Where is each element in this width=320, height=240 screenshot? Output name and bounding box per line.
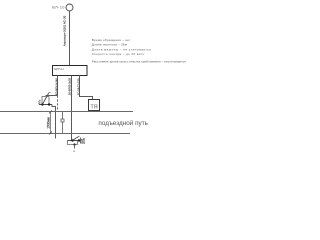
svg-text:Скорость поезда – до 20 км/ч: Скорость поезда – до 20 км/ч bbox=[92, 52, 144, 56]
svg-text:ЦРП-Н: ЦРП-Н bbox=[54, 67, 64, 71]
svg-text:2б-ВЛ02-3х35: 2б-ВЛ02-3х35 bbox=[68, 78, 72, 96]
svg-text:РЛс: РЛс bbox=[39, 99, 42, 104]
svg-text:1500мм: 1500мм bbox=[46, 117, 50, 128]
svg-text:Длина перегона – 36м: Длина перегона – 36м bbox=[92, 43, 127, 47]
svg-text:Время обращения – нет: Время обращения – нет bbox=[92, 38, 131, 42]
svg-text:КЛ-663-2х240: КЛ-663-2х240 bbox=[54, 78, 58, 95]
svg-text:Длина машины – не учитываетс: Длина машины – не учитывается bbox=[92, 47, 151, 51]
svg-text:Расстояние длина узкого участк: Расстояние длина узкого участка приближе… bbox=[92, 59, 186, 63]
svg-text:2С-19-71-150: 2С-19-71-150 bbox=[76, 78, 80, 95]
svg-text:АС35: АС35 bbox=[83, 137, 86, 143]
svg-text:подъездной путь: подъездной путь bbox=[98, 119, 148, 127]
svg-text:ТЯ: ТЯ bbox=[90, 105, 97, 111]
svg-text:Аэропорт-3(10) АС-35: Аэропорт-3(10) АС-35 bbox=[63, 15, 67, 46]
svg-text:ВЛ-10: ВЛ-10 bbox=[52, 6, 64, 10]
